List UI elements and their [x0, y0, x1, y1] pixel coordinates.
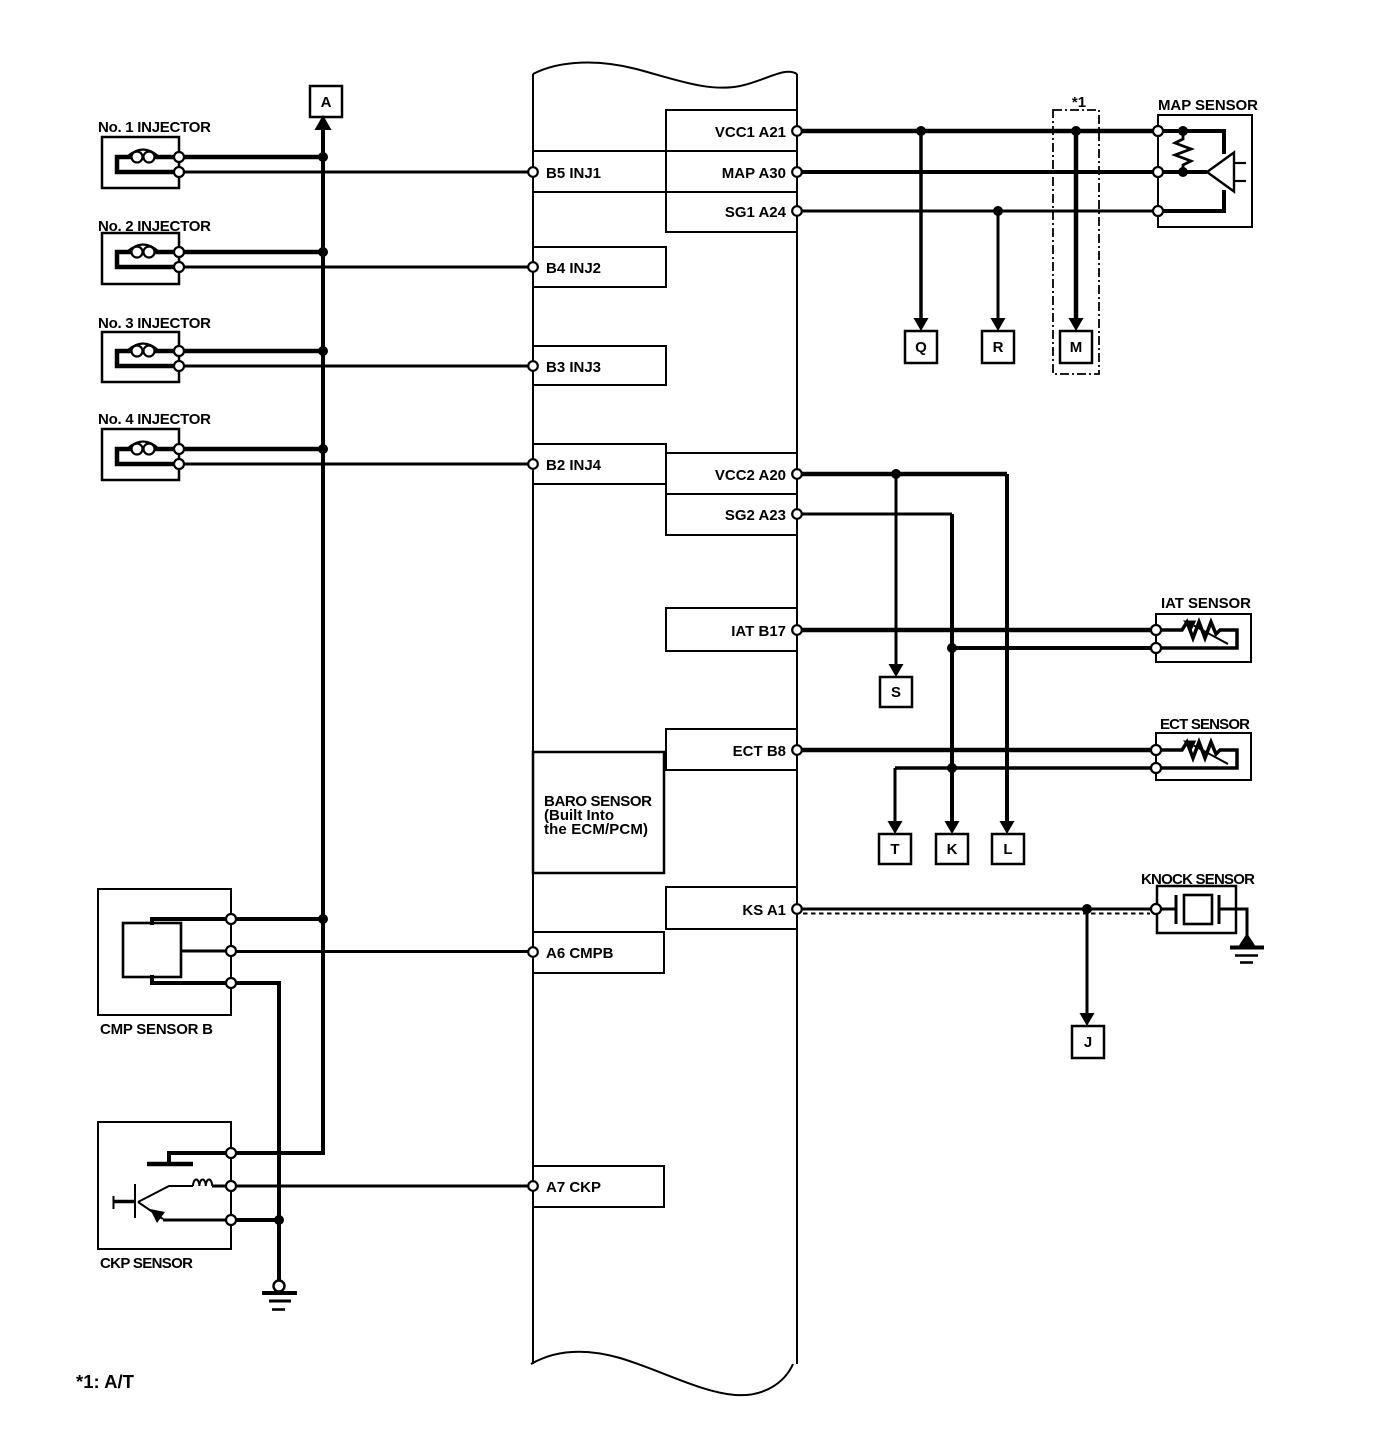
svg-text:ECT B8: ECT B8 — [733, 743, 786, 760]
svg-text:CMP SENSOR B: CMP SENSOR B — [100, 1021, 213, 1038]
pin box KS A1 — [666, 887, 797, 929]
junction CMP-drop CKP bottom — [274, 1215, 284, 1225]
pin terminal VCC2 A20 — [792, 469, 802, 479]
svg-text:No. 4 INJECTOR: No. 4 INJECTOR — [98, 411, 211, 428]
svg-text:ECT SENSOR: ECT SENSOR — [1160, 716, 1250, 733]
wire injector1 to B5 INJ1 — [184, 171, 528, 174]
svg-text:B4 INJ2: B4 INJ2 — [546, 260, 601, 277]
junction SG1 R-drop — [993, 206, 1003, 216]
svg-text:B2 INJ4: B2 INJ4 — [546, 457, 602, 474]
svg-text:A6 CMPB: A6 CMPB — [546, 945, 614, 962]
wire IAT sensor return to K line — [952, 646, 1157, 650]
pin terminal SG2 A23 — [792, 509, 802, 519]
wire injector3 to B3 INJ3 — [184, 365, 528, 368]
svg-text:Q: Q — [915, 339, 927, 356]
svg-text:K: K — [947, 841, 958, 858]
wire bus A vertical — [231, 126, 323, 1153]
wire SG2 corner drop to K — [950, 514, 954, 821]
junction bus A inj2 — [318, 247, 328, 257]
ground knock sensor — [1230, 933, 1264, 963]
arrow into K — [945, 821, 960, 834]
svg-text:S: S — [891, 684, 901, 701]
pin box SG1 A24 — [666, 192, 797, 232]
arrow into T — [888, 821, 903, 834]
wire drop to M — [1074, 131, 1079, 320]
svg-text:MAP SENSOR: MAP SENSOR — [1158, 97, 1258, 114]
IAT sensor — [1151, 595, 1251, 662]
wire VCC2 corner drop to L — [1005, 474, 1009, 821]
arrow into Q — [914, 318, 929, 331]
pin box VCC2 A20 — [666, 453, 797, 494]
node K box — [936, 834, 968, 864]
wire KS A1 to knock sensor (shielded) — [801, 908, 1152, 911]
svg-text:CKP SENSOR: CKP SENSOR — [100, 1255, 193, 1272]
wire VCC2 A20 horizontal — [801, 472, 1007, 477]
pin box SG2 A23 — [666, 494, 797, 535]
ECT sensor — [1151, 716, 1251, 780]
svg-text:T: T — [890, 841, 899, 858]
node M box — [1060, 331, 1092, 363]
wire CMP mid to A6 CMPB — [236, 950, 528, 953]
node Q box — [905, 331, 937, 363]
svg-text:VCC2 A20: VCC2 A20 — [715, 467, 786, 484]
node S box — [880, 677, 912, 707]
svg-text:*1: *1 — [1072, 94, 1086, 111]
wire SG1 A24 to MAP sensor — [801, 210, 1158, 213]
svg-text:M: M — [1070, 339, 1083, 356]
BARO sensor note box — [533, 752, 664, 873]
pin terminal KS A1 — [792, 904, 802, 914]
svg-text:SG2 A23: SG2 A23 — [725, 507, 786, 524]
arrow into M — [1069, 318, 1084, 331]
node R box — [982, 331, 1014, 363]
wire ECT B8 to ECT sensor — [801, 748, 1156, 753]
node L box — [992, 834, 1024, 864]
wire IAT B17 to IAT sensor — [801, 628, 1157, 633]
junction bus A CMP — [318, 914, 328, 924]
injector No.4 — [98, 411, 211, 480]
svg-text:VCC1 A21: VCC1 A21 — [715, 124, 786, 141]
pin box A6 CMPB — [533, 932, 664, 973]
MAP sensor — [1153, 97, 1258, 227]
wire ECT sensor return to T corner — [895, 766, 1156, 770]
arrow into S — [889, 664, 904, 677]
pin terminal SG1 A24 — [792, 206, 802, 216]
svg-text:KS A1: KS A1 — [742, 902, 786, 919]
wire SG2 A23 horizontal — [801, 513, 952, 516]
node A arrow — [315, 115, 332, 130]
wire injector2 to bus A — [184, 250, 323, 255]
svg-text:L: L — [1003, 841, 1012, 858]
svg-text:IAT SENSOR: IAT SENSOR — [1161, 595, 1251, 612]
pin box A7 CKP — [533, 1166, 664, 1207]
ground CMP/CKP — [262, 1281, 297, 1310]
pin terminal VCC1 A21 — [792, 126, 802, 136]
svg-text:IAT B17: IAT B17 — [731, 623, 786, 640]
pin box ECT B8 — [666, 729, 797, 770]
junction KS J-drop — [1082, 904, 1092, 914]
wire injector4 to B2 INJ4 — [184, 463, 528, 466]
pin terminal B4 INJ2 — [528, 262, 538, 272]
node J box — [1072, 1026, 1104, 1058]
injector No.2 — [98, 218, 211, 284]
wire CKP mid to A7 CKP — [236, 1185, 528, 1188]
wire drop to R — [997, 211, 1000, 320]
wire MAP A30 to MAP sensor — [801, 170, 1158, 174]
pin box B5 INJ1 — [533, 151, 666, 192]
pin box B2 INJ4 — [533, 444, 666, 484]
svg-text:B3 INJ3: B3 INJ3 — [546, 359, 601, 376]
svg-text:J: J — [1084, 1034, 1092, 1051]
wire CMP bottom down to CKP/ground — [236, 983, 279, 1285]
wire injector1 to bus A — [184, 155, 323, 160]
wire injector3 to bus A — [184, 349, 323, 354]
pin terminal ECT B8 — [792, 745, 802, 755]
pin terminal B2 INJ4 — [528, 459, 538, 469]
pin terminal A7 CKP — [528, 1181, 538, 1191]
pin box MAP A30 — [666, 151, 797, 192]
CKP sensor — [98, 1122, 236, 1272]
pin box IAT B17 — [666, 608, 797, 651]
wire CMP top to bus A — [236, 917, 323, 921]
wire drop to S — [895, 474, 898, 666]
wire ECT bottom corner drop to T — [894, 768, 897, 821]
junction VCC1 Q-drop — [916, 126, 926, 136]
arrow into L — [1000, 821, 1015, 834]
knock sensor — [1141, 871, 1255, 935]
injector No.3 — [98, 315, 211, 382]
pin terminal A6 CMPB — [528, 947, 538, 957]
node A box — [310, 86, 342, 117]
svg-text:No. 1 INJECTOR: No. 1 INJECTOR — [98, 119, 211, 136]
pin terminal IAT B17 — [792, 625, 802, 635]
svg-text:MAP A30: MAP A30 — [722, 165, 786, 182]
svg-text:No. 3 INJECTOR: No. 3 INJECTOR — [98, 315, 211, 332]
wire injector2 to B4 INJ2 — [184, 266, 528, 269]
junction K IAT return — [947, 643, 957, 653]
arrow into R — [991, 318, 1006, 331]
svg-text:A: A — [321, 94, 332, 111]
wire VCC1 A21 to MAP sensor — [801, 129, 1158, 134]
ECM/PCM column outline — [531, 63, 797, 1396]
node T box — [879, 834, 911, 864]
pin box B3 INJ3 — [533, 346, 666, 385]
wire CKP bottom to junction — [236, 1218, 279, 1222]
junction bus A inj1 — [318, 152, 328, 162]
junction VCC2 S-drop — [891, 469, 901, 479]
svg-text:*1: A/T: *1: A/T — [76, 1371, 135, 1392]
pin terminal B5 INJ1 — [528, 167, 538, 177]
svg-text:R: R — [993, 339, 1004, 356]
svg-text:B5 INJ1: B5 INJ1 — [546, 165, 601, 182]
pin box VCC1 A21 — [666, 110, 797, 151]
junction K ECT return — [947, 763, 957, 773]
pin box B4 INJ2 — [533, 247, 666, 287]
svg-text:the ECM/PCM): the ECM/PCM) — [544, 821, 648, 838]
svg-text:SG1 A24: SG1 A24 — [725, 204, 787, 221]
svg-text:A7 CKP: A7 CKP — [546, 1179, 601, 1196]
junction bus A inj3 — [318, 346, 328, 356]
arrow into J — [1080, 1013, 1095, 1026]
CMP sensor B — [98, 889, 236, 1038]
pin terminal MAP A30 — [792, 167, 802, 177]
junction bus A inj4 — [318, 444, 328, 454]
dash-dot box *1 — [1053, 94, 1099, 374]
injector No.1 — [98, 119, 211, 188]
pin terminal B3 INJ3 — [528, 361, 538, 371]
wire drop to J — [1086, 909, 1089, 1013]
wire injector4 to bus A — [184, 447, 323, 452]
junction VCC1 M-drop — [1071, 126, 1081, 136]
wire drop to Q — [919, 131, 923, 320]
